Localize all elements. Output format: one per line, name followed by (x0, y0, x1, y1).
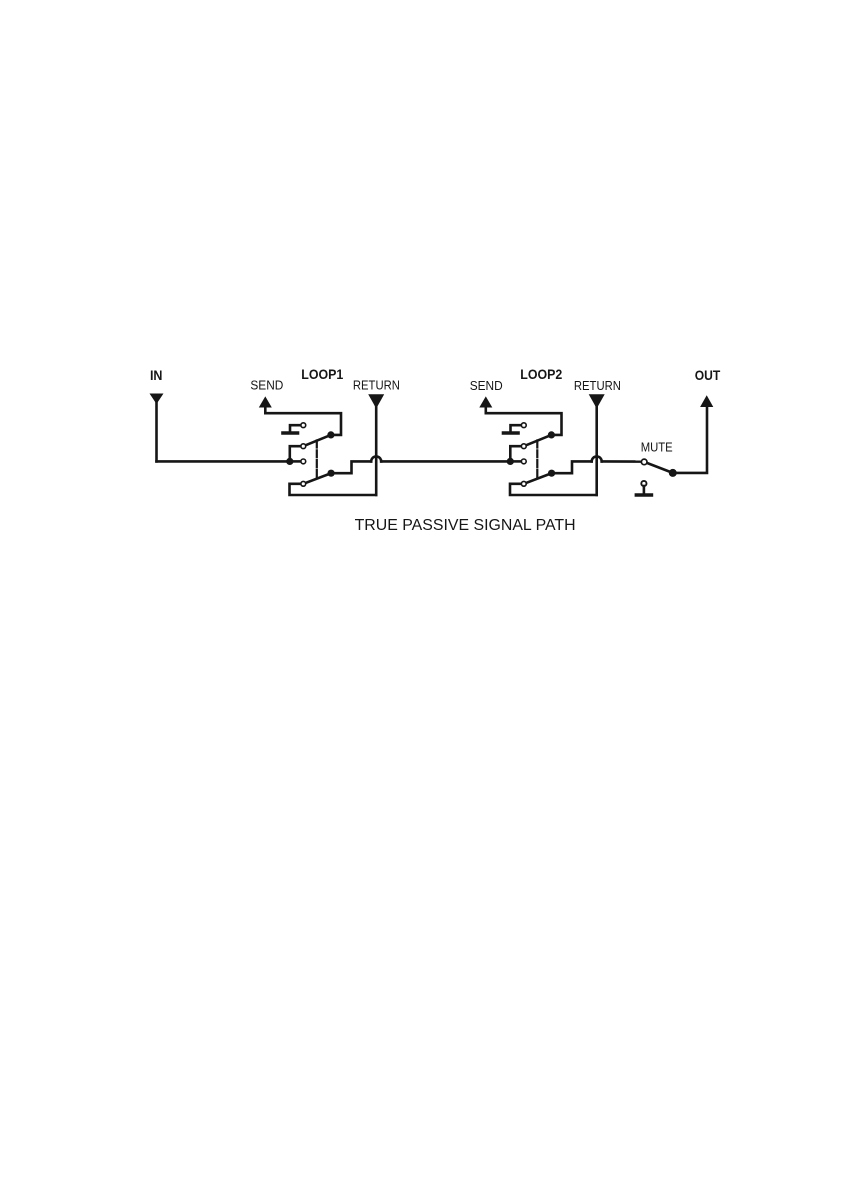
switch S2 upper throw contact (521, 444, 526, 449)
switch S1 middle contact (301, 459, 306, 464)
ground G3 mute throw contact (641, 481, 646, 486)
switch S3 pole dot (669, 469, 677, 477)
wire RETURN2 vertical (595, 406, 598, 495)
ground G2 stub wire (511, 425, 522, 431)
wire SEND1 arm (265, 406, 341, 435)
svg-text:LOOP2: LOOP2 (520, 367, 562, 382)
wire node J2 to S2 middle contact (510, 460, 521, 463)
wire main input segment (157, 460, 290, 463)
svg-text:OUT: OUT (695, 367, 721, 383)
wire S1 lower throw to RETURN1 bottom (290, 484, 377, 495)
svg-text:TRUE PASSIVE SIGNAL PATH: TRUE PASSIVE SIGNAL PATH (355, 517, 576, 534)
ground G1 stub wire (290, 425, 301, 431)
node J1 input junction dot (286, 458, 293, 465)
switch S2 ground throw contact (521, 423, 526, 428)
switch S2 mechanical link (dashed) (536, 441, 538, 479)
switch S3 lever (644, 462, 673, 473)
switch S1 upper pole dot (327, 431, 334, 438)
wire S1 output step (331, 461, 371, 473)
switch S3 input contact (641, 459, 647, 465)
jack SEND1 arrow (259, 396, 272, 407)
switch S1 lower pole dot (328, 470, 335, 477)
switch S1 upper throw contact (301, 444, 306, 449)
switch S2 lever lower (524, 473, 552, 484)
wire S2 output step (552, 461, 592, 473)
svg-text:RETURN: RETURN (574, 378, 621, 393)
node J2 junction dot (507, 458, 514, 465)
switch S1 lower throw contact (301, 481, 306, 486)
ground G2 bar (504, 431, 519, 435)
switch S1 lever lower (303, 473, 331, 484)
jack IN arrow (150, 394, 164, 405)
switch S2 lever upper (524, 435, 552, 446)
jack SEND2 arrow (479, 396, 492, 407)
svg-text:LOOP1: LOOP1 (301, 367, 343, 382)
wire RETURN1 vertical (375, 406, 378, 495)
switch S2 middle contact (521, 459, 526, 464)
wire crossover hop over RETURN1 (371, 456, 381, 461)
svg-text:IN: IN (150, 367, 163, 383)
wire main segment between loops (381, 460, 510, 463)
wire OUT arm (673, 406, 707, 473)
svg-text:RETURN: RETURN (353, 378, 400, 393)
jack OUT arrow (700, 395, 713, 407)
wire S1 upper throw to input node (290, 446, 301, 461)
wire S2 upper throw to node J2 (510, 446, 521, 461)
svg-text:SEND: SEND (250, 378, 283, 393)
wire node J1 to S1 middle contact (290, 460, 301, 463)
svg-text:MUTE: MUTE (641, 439, 673, 454)
jack RETURN1 arrow (368, 394, 384, 408)
switch S2 lower pole dot (548, 470, 555, 477)
jack RETURN2 arrow (589, 394, 605, 408)
wire IN vertical (155, 402, 158, 461)
switch S1 mechanical link (dashed) (316, 441, 318, 479)
wire main segment to mute switch (602, 460, 641, 463)
wire S2 lower throw to RETURN2 bottom (510, 484, 597, 495)
wire SEND2 arm (486, 406, 562, 435)
switch S2 upper pole dot (548, 431, 555, 438)
ground G3 stub wire (643, 486, 646, 493)
svg-text:SEND: SEND (470, 378, 503, 393)
switch S1 lever upper (303, 435, 331, 446)
switch S2 lower throw contact (521, 481, 526, 486)
wire crossover hop over RETURN2 (592, 456, 602, 461)
ground G3 bar (636, 493, 651, 497)
ground G1 bar (283, 431, 298, 435)
switch S1 ground throw contact (301, 423, 306, 428)
